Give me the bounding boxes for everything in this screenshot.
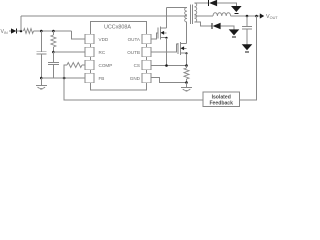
wire (17, 30, 21, 32)
pin FB (85, 73, 104, 83)
svg-text:COMP: COMP (99, 63, 113, 68)
resistor R1 (24, 29, 34, 34)
wire GND (151, 78, 187, 83)
node B (40, 30, 43, 33)
wire OUTA (151, 33, 158, 39)
diode D1 (11, 28, 16, 33)
wire (194, 2, 208, 4)
node D (40, 77, 43, 80)
node C (52, 30, 55, 33)
svg-text:CS: CS (134, 63, 140, 68)
wire (72, 31, 86, 39)
pin VDD (85, 34, 109, 44)
capacitor C3 (242, 16, 252, 44)
wire (20, 16, 22, 31)
wire CS net (151, 65, 187, 67)
svg-text:OUTB: OUTB (127, 50, 140, 55)
wire (186, 22, 188, 44)
wire (221, 26, 234, 29)
ground (36, 78, 47, 90)
node J (185, 64, 188, 67)
ground (181, 83, 192, 92)
node VOUT label (266, 14, 278, 20)
diode D2 (208, 0, 217, 6)
node I (165, 64, 168, 67)
transistor Q1 (158, 27, 167, 40)
svg-text:VOUT: VOUT (266, 14, 278, 20)
isolated feedback block (203, 92, 240, 107)
node VIN label (1, 29, 8, 35)
wire (64, 78, 203, 100)
wire (240, 16, 257, 100)
wire (53, 51, 85, 53)
node H (185, 52, 187, 54)
node M (255, 15, 258, 18)
wire (194, 22, 211, 26)
node F (63, 77, 66, 80)
node E (52, 51, 55, 54)
capacitor C2 (48, 52, 59, 78)
svg-text:UCCx808A: UCCx808A (104, 25, 131, 31)
wire (166, 8, 168, 29)
wire (166, 38, 168, 66)
node G (165, 37, 167, 39)
svg-text:OUTA: OUTA (128, 37, 141, 42)
wire (34, 30, 72, 32)
wire (9, 30, 11, 32)
ground (231, 6, 242, 14)
inductor L1 (213, 13, 231, 16)
wire (186, 53, 188, 65)
wire OUTB (151, 44, 178, 52)
transformer T1 core (191, 5, 193, 25)
wire (194, 15, 213, 17)
ground (242, 44, 253, 52)
pin CS (134, 60, 151, 70)
transformer T1 secondary (194, 3, 196, 22)
svg-text:Feedback: Feedback (209, 101, 233, 107)
pin GND (130, 73, 151, 83)
svg-text:GND: GND (130, 76, 141, 81)
resistor R4 (184, 66, 189, 83)
svg-text:VIN: VIN (1, 29, 8, 35)
pin OUTA (128, 34, 151, 44)
transformer T1 primary (185, 8, 187, 23)
ground (229, 29, 240, 37)
resistor R2 (51, 31, 56, 52)
node VOUT arrow (260, 13, 264, 18)
svg-text:VDD: VDD (99, 37, 109, 42)
diode D3 (212, 23, 221, 29)
pin COMP (85, 60, 112, 70)
capacitor C1 (36, 31, 46, 78)
node K (185, 81, 188, 84)
pin RC (85, 47, 106, 57)
wire (167, 7, 188, 9)
svg-text:Isolated: Isolated (212, 94, 231, 100)
svg-text:RC: RC (99, 50, 106, 55)
node L (246, 15, 249, 18)
wire FB net (41, 77, 85, 79)
wire (231, 15, 260, 17)
wire (217, 3, 236, 6)
node A (20, 30, 23, 33)
resistor R3 (64, 63, 85, 79)
pin OUTB (127, 47, 151, 57)
transistor Q2 (178, 42, 187, 55)
wire VDD rail (21, 15, 187, 17)
op-amp U1 UCCx808A body (91, 22, 147, 91)
svg-text:FB: FB (99, 76, 105, 81)
